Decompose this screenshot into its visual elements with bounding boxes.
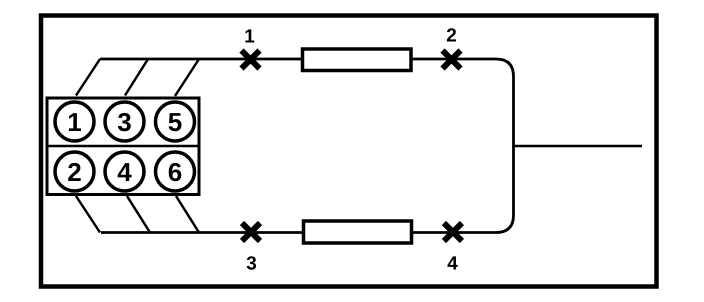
terminal 1 <box>55 102 94 141</box>
wire: lead from terminal 1 to top run <box>76 59 100 96</box>
resistor (top suppressor block) <box>303 49 412 71</box>
test point X4 <box>444 223 462 241</box>
terminal 4 <box>105 152 144 191</box>
label: node 3 <box>247 256 256 269</box>
connector block (6-terminal) <box>47 98 199 195</box>
label: node 4 <box>448 256 458 269</box>
label: node 2 <box>447 28 456 41</box>
wire: center tap from right side to the right <box>514 145 643 148</box>
wire: lead from terminal 6 to bottom run <box>176 196 199 233</box>
label: node 1 <box>245 29 254 42</box>
test point X1 <box>242 51 260 69</box>
wire: lead from terminal 5 to top run <box>175 59 199 96</box>
terminal 6 <box>156 152 195 191</box>
terminal 5 <box>156 102 195 141</box>
test point X2 <box>443 51 461 69</box>
wire: lead from terminal 4 to bottom run <box>127 196 150 233</box>
wire: lead from terminal 3 to top run <box>125 59 148 96</box>
terminal 3 <box>105 102 144 141</box>
wire: lead from terminal 2 to bottom run <box>76 196 100 233</box>
wire: main loop (top run, right side, bottom run) <box>100 59 514 233</box>
test point X3 <box>242 223 260 241</box>
resistor (bottom suppressor block) <box>304 221 412 243</box>
terminal 2 <box>55 152 94 191</box>
